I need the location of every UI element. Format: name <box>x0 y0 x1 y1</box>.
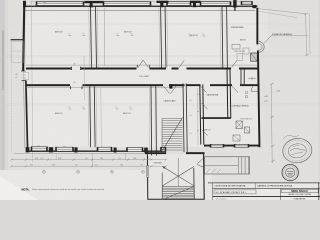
bay top walls <box>145 152 166 154</box>
casa scarii right wall <box>183 83 184 152</box>
partition bottom rooms 1-2 <box>89 86 92 147</box>
corridor lower wall bottom face <box>26 87 184 89</box>
bottom wall outer face <box>14 153 166 155</box>
wall garderoba south <box>202 117 231 119</box>
title row2 firm <box>214 190 256 194</box>
window top-2 <box>103 2 151 6</box>
semicircular brick steps <box>259 42 264 53</box>
door jambs lower <box>69 86 71 89</box>
pier bottom 3 <box>114 148 117 153</box>
left dashed boundary <box>10 41 13 152</box>
stair cross diagonals <box>163 167 195 186</box>
axis labels F <box>43 170 46 173</box>
bottom dim line 2 <box>12 165 167 167</box>
stair center rail <box>177 158 179 186</box>
window top-5 <box>241 2 253 5</box>
door swing garderoba <box>202 103 208 109</box>
door jambs d1 <box>71 67 73 70</box>
lintel bar 2 <box>157 1 169 3</box>
partition top rooms 2-3 <box>161 7 162 68</box>
round stamp small <box>282 164 298 180</box>
door swing 4 <box>179 60 184 67</box>
title block left border <box>212 183 214 200</box>
title block background <box>213 183 320 200</box>
top wall line <box>23 5 258 7</box>
partition top rooms 3-4 <box>221 7 224 68</box>
window bottom-3 <box>97 147 112 151</box>
terrace outline <box>205 157 250 174</box>
door swing double <box>138 60 143 67</box>
window bottom-4 <box>127 148 144 152</box>
pier bottom corner <box>26 147 30 152</box>
axis line window2 <box>103 8 106 66</box>
left dim chain line <box>31 2 33 163</box>
title block right border <box>318 183 320 200</box>
pier top C <box>193 3 196 8</box>
round stamp large <box>281 137 313 165</box>
wall garderoba right <box>226 70 229 119</box>
title row1 divider <box>254 183 256 189</box>
room dimension marks <box>69 35 72 37</box>
top wall inner face <box>25 9 255 11</box>
stair treads upper flight <box>162 118 183 120</box>
soba boxes <box>237 54 243 61</box>
corridor lower wall <box>26 84 70 86</box>
door swing wing <box>201 86 207 92</box>
right dim ticks <box>304 13 307 14</box>
right dim ticks <box>270 83 273 85</box>
terrace hatch <box>206 169 210 173</box>
pier top B <box>160 3 163 8</box>
right exterior wall lower <box>257 51 260 148</box>
bay window vertical <box>147 166 149 178</box>
bottom-left lighter paper <box>0 170 212 200</box>
pier bottom 1 <box>49 147 53 152</box>
window wing-1 <box>210 144 224 147</box>
title rule 2 <box>213 187 320 189</box>
window bottom-1 <box>31 147 48 151</box>
wall stub pair <box>240 70 242 86</box>
right exterior wall upper <box>256 8 258 45</box>
bay right wall <box>203 153 206 200</box>
title divider v <box>280 188 282 200</box>
room interiors lighter <box>26 8 257 147</box>
pier top A1 <box>90 3 93 8</box>
left door jambs <box>21 70 25 72</box>
bottom dim line 1 <box>12 159 167 161</box>
stair run diagonal <box>163 187 193 200</box>
lintel bar 3 <box>190 1 201 3</box>
tick cluster <box>248 78 256 80</box>
window bottom-2 <box>56 147 74 151</box>
bay bottom wall <box>147 198 204 200</box>
window wing-2 <box>234 144 249 147</box>
top dimension line <box>30 0 250 2</box>
bay door arc <box>197 158 203 167</box>
door swing lower <box>164 86 170 93</box>
scan bands <box>0 55 320 58</box>
window top-1 <box>36 2 84 6</box>
left exterior wall <box>22 5 25 71</box>
stair treads lower flight <box>163 185 194 187</box>
tile stove soba <box>251 53 258 61</box>
left porch jog wall <box>11 39 24 40</box>
axis line lower room <box>100 88 103 148</box>
title MODL BACAU <box>282 189 319 193</box>
small furniture presentation room <box>232 45 240 50</box>
exterior door arc right <box>251 84 258 91</box>
boiler equipment <box>236 121 243 129</box>
porch dashed outline <box>11 41 23 63</box>
window top-4 <box>200 2 231 6</box>
top-right leader lines <box>258 9 306 14</box>
pier top-right corner <box>252 5 256 8</box>
door swing 6 <box>232 60 238 67</box>
wing bottom wall upper <box>204 145 260 147</box>
fixtures <box>245 91 248 94</box>
signature scribble <box>283 135 299 139</box>
title rule 3 <box>213 196 320 198</box>
leader to steps <box>264 36 271 44</box>
partition top rooms 1-2 <box>91 7 92 68</box>
dim line mid vertical <box>83 56 86 100</box>
left scan edge shadow <box>0 0 5 200</box>
lintel bar 1 <box>85 1 104 3</box>
pier bottom 4 <box>144 148 148 153</box>
stair diagonal upper <box>163 118 183 151</box>
partition bottom rooms 2-3 <box>150 86 153 155</box>
wing dim column <box>197 88 199 145</box>
bay left wall <box>146 154 148 199</box>
bottom wall line <box>26 150 166 152</box>
right dim line lower <box>271 84 272 163</box>
window top-3 <box>167 2 192 6</box>
corner blob vestibul <box>169 84 172 88</box>
terrace mid line <box>205 164 239 166</box>
axis stubs below wall <box>91 154 93 167</box>
corridor upper wall top face <box>26 64 257 66</box>
pier top D chimney <box>233 0 236 7</box>
title block top rule <box>208 182 320 184</box>
wall garderoba left <box>200 84 201 144</box>
dim ticks <box>10 159 12 161</box>
right dim lines upper <box>306 14 307 57</box>
corridor upper wall <box>26 68 71 70</box>
pier bottom 2 <box>74 147 77 152</box>
stair arrow <box>163 167 166 170</box>
upper wall central wing <box>187 84 201 86</box>
pier top-left corner <box>23 1 26 7</box>
terrace steps <box>238 157 240 174</box>
window bottom-5 <box>161 147 167 151</box>
